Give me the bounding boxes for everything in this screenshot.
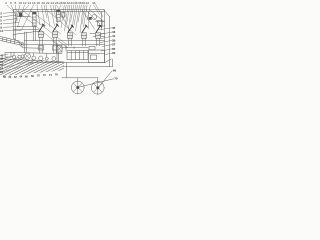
metering unit 1 body bbox=[39, 32, 44, 38]
right label column bbox=[112, 26, 116, 55]
wheel carrier bar bbox=[62, 77, 98, 79]
header segment left bbox=[17, 26, 37, 28]
long cross leaders bbox=[17, 11, 59, 45]
elevator chute 1 bbox=[33, 14, 37, 27]
wheel 1 hub bbox=[76, 86, 79, 89]
corner diagonal leaders bbox=[82, 10, 104, 29]
tank divider 1 bbox=[70, 51, 72, 60]
metering unit 4 legs bbox=[82, 38, 84, 46]
metering unit 3 inner bbox=[68, 35, 73, 37]
svg-text:4: 4 bbox=[5, 1, 7, 5]
coulter disc 2b bbox=[21, 55, 24, 58]
svg-text:60: 60 bbox=[9, 76, 12, 79]
svg-text:76: 76 bbox=[55, 73, 58, 76]
svg-text:14: 14 bbox=[28, 1, 32, 5]
metering unit 5 lever bbox=[96, 25, 102, 33]
svg-text:42: 42 bbox=[86, 1, 90, 5]
svg-text:66: 66 bbox=[25, 75, 28, 78]
metering unit 2 legs bbox=[53, 37, 55, 53]
svg-text:44: 44 bbox=[92, 1, 96, 5]
housing left wall inner bbox=[14, 12, 16, 40]
svg-text:70: 70 bbox=[114, 77, 118, 81]
rear platform step bbox=[63, 66, 113, 68]
coulter disc 4 bbox=[39, 56, 43, 60]
svg-text:33: 33 bbox=[112, 51, 116, 55]
drawbar hitch eye bbox=[20, 42, 24, 46]
drawbar link bbox=[14, 39, 20, 43]
inlet box bbox=[61, 13, 65, 17]
metering unit 1 inner bbox=[39, 34, 44, 36]
housing inner top edge bbox=[17, 11, 105, 13]
tank top double line bbox=[67, 51, 88, 53]
svg-text:64: 64 bbox=[20, 76, 23, 79]
sloped shelf lines bbox=[13, 31, 40, 35]
agitator housing bbox=[98, 21, 103, 26]
coulter disc 3 bbox=[32, 56, 36, 60]
metering unit 1 legs bbox=[39, 37, 41, 53]
right box inner line bbox=[89, 53, 105, 55]
valve box legs bbox=[56, 52, 58, 63]
cell wheel tank bbox=[67, 51, 88, 60]
tank feed vertical bbox=[65, 45, 67, 51]
right box inner rect bbox=[91, 55, 97, 60]
right wall shelf b bbox=[93, 36, 105, 38]
left label column (lower) bbox=[0, 53, 4, 74]
seed tube header bbox=[11, 52, 62, 53]
corner shelf b bbox=[98, 25, 105, 27]
svg-text:24: 24 bbox=[51, 1, 55, 5]
metering unit 5 body bbox=[96, 33, 101, 39]
metering unit 1 lever bbox=[39, 24, 45, 32]
svg-text:62: 62 bbox=[14, 76, 17, 79]
drawbar top rail bbox=[0, 36, 20, 41]
wheel 2 leader bbox=[99, 71, 112, 87]
corner vertical bbox=[101, 12, 103, 30]
inner shelf line bbox=[17, 16, 30, 18]
chute 1 cap bbox=[32, 12, 36, 14]
coulter leg 3 bbox=[33, 53, 35, 56]
tank area leaders bbox=[52, 41, 68, 49]
housing right panel bbox=[109, 17, 111, 67]
small top box bbox=[89, 46, 95, 50]
metering unit 2 body bbox=[53, 32, 58, 38]
elevator chute 2 bbox=[57, 12, 61, 22]
coulter disc 5 bbox=[45, 57, 48, 60]
pipe tick 2 bbox=[73, 47, 75, 49]
tank divider 4 bbox=[83, 51, 85, 60]
tank divider 2 bbox=[74, 51, 76, 60]
coulter disc 1 bbox=[12, 55, 16, 59]
svg-text:72: 72 bbox=[43, 74, 46, 77]
left runner box bbox=[5, 53, 11, 58]
metering unit 4 lever bbox=[82, 25, 88, 33]
coulter leg 1 bbox=[13, 52, 15, 55]
unit 2 foot box bbox=[52, 46, 58, 50]
coulter leg 4 bbox=[46, 54, 48, 58]
chute 1 legs bbox=[32, 27, 34, 41]
drawbar bottom rail bbox=[0, 40, 22, 45]
chute 2 cap bbox=[56, 10, 60, 12]
housing left wall outer bbox=[13, 10, 15, 39]
right wall shelf a bbox=[90, 33, 105, 35]
front support column bbox=[24, 32, 26, 52]
left label column (upper) bbox=[0, 12, 4, 34]
ground line bbox=[0, 59, 64, 62]
left label leaders (upper) bbox=[3, 12, 21, 31]
svg-text:56: 56 bbox=[0, 70, 4, 74]
wheel 2 spokes bbox=[93, 81, 102, 94]
upper manifold pipe bbox=[24, 40, 105, 42]
agitator circle bbox=[92, 15, 97, 20]
housing corner diagonal lower bbox=[105, 59, 112, 63]
corner shelf a bbox=[96, 21, 105, 23]
housing right wall bbox=[104, 10, 106, 63]
wheel label 70 bbox=[114, 77, 118, 81]
metering unit 4 body bbox=[82, 33, 87, 39]
metering unit 3 lever bbox=[68, 25, 74, 33]
wheel 1 leader bbox=[80, 79, 114, 87]
svg-text:11: 11 bbox=[0, 29, 4, 33]
leader line fan from top numerals bbox=[7, 5, 104, 45]
svg-text:10: 10 bbox=[19, 1, 23, 5]
svg-text:74: 74 bbox=[49, 74, 52, 77]
wheel 2 rim bbox=[91, 81, 104, 94]
svg-text:58: 58 bbox=[3, 76, 6, 79]
drawbar ribs bbox=[2, 37, 15, 44]
bottom numerals under hatching bbox=[3, 73, 58, 79]
drawbar mid rail bbox=[0, 38, 21, 43]
metering unit 5 legs bbox=[96, 38, 98, 46]
top reference numerals row bbox=[5, 1, 96, 5]
lower manifold pipe bbox=[25, 44, 105, 46]
svg-text:66: 66 bbox=[113, 68, 117, 72]
metering unit 2 lever bbox=[53, 24, 59, 32]
coulter disc 6 bbox=[52, 57, 56, 61]
housing top-right corner bbox=[104, 10, 110, 17]
svg-text:22: 22 bbox=[46, 1, 50, 5]
agitator dark block bbox=[89, 17, 92, 20]
metering unit 4 inner bbox=[82, 35, 87, 37]
carrier upright bbox=[66, 63, 68, 78]
svg-text:12: 12 bbox=[23, 1, 27, 5]
wheel 1 rim bbox=[71, 81, 84, 94]
svg-text:16: 16 bbox=[32, 1, 36, 5]
metering unit 3 body bbox=[68, 33, 73, 39]
wheel label 68 bbox=[113, 68, 117, 72]
svg-text:68: 68 bbox=[31, 75, 34, 78]
wheel 2 axle post bbox=[97, 78, 99, 82]
metering unit 2 inner bbox=[53, 34, 58, 36]
press wheel large bbox=[24, 53, 30, 59]
valve box with cross bbox=[57, 46, 63, 53]
housing top edge bbox=[13, 9, 104, 11]
svg-text:6: 6 bbox=[10, 1, 12, 5]
svg-text:8: 8 bbox=[15, 1, 17, 5]
unit 1 foot box bbox=[38, 46, 44, 50]
hopper box A bbox=[19, 12, 23, 16]
housing bottom edge bbox=[28, 62, 105, 64]
svg-text:20: 20 bbox=[42, 1, 46, 5]
connecting pipe bbox=[62, 47, 88, 49]
platform right support bbox=[112, 59, 114, 67]
right label leaders bbox=[97, 28, 112, 55]
metering unit 5 inner bbox=[96, 35, 101, 37]
wheel 1 spokes bbox=[73, 81, 82, 94]
lower-left label leaders bbox=[3, 54, 41, 72]
right equipment box bbox=[89, 50, 105, 63]
svg-text:70: 70 bbox=[37, 75, 40, 78]
wheel 1 axle post bbox=[77, 78, 79, 81]
wheel 2 hub bbox=[96, 86, 99, 89]
tank divider 3 bbox=[79, 51, 81, 60]
metering unit 3 legs bbox=[68, 38, 70, 46]
coulter disc 2 bbox=[18, 55, 21, 58]
hitch pin bbox=[21, 44, 22, 45]
pipe tick 1 bbox=[65, 47, 67, 49]
svg-text:18: 18 bbox=[37, 1, 41, 5]
